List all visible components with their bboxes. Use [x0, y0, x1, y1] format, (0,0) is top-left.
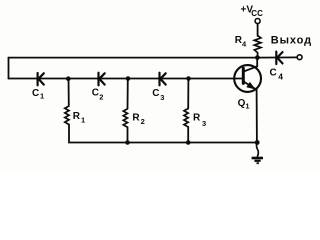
resistor R2: [123, 109, 127, 127]
terminal +Vcc: [255, 19, 260, 24]
capacitor C4: [276, 52, 282, 64]
wire bottom ground rail: [69, 125, 258, 143]
svg-text:CC: CC: [251, 9, 263, 18]
capacitor C2: [99, 73, 105, 86]
node C (C3-R3 junction): [186, 76, 191, 81]
label C4: [270, 68, 284, 82]
svg-text:2: 2: [99, 93, 103, 102]
resistor R4: [254, 36, 261, 55]
svg-text:1: 1: [40, 92, 44, 101]
wire R3 branch lower: [187, 127, 189, 143]
wire R3 branch upper: [187, 79, 189, 109]
svg-text:1: 1: [245, 102, 249, 111]
resistor R3: [184, 109, 188, 127]
label R3: [193, 113, 206, 129]
wire R4 to collector node: [257, 54, 259, 58]
node A (C1-R1 junction): [66, 76, 71, 81]
wire Vcc to R4: [257, 24, 259, 36]
label +Vcc: [241, 4, 264, 17]
svg-text:C: C: [32, 88, 39, 99]
resistor R1: [65, 106, 69, 125]
node B (C2-R2 junction): [126, 76, 131, 81]
svg-text:2: 2: [141, 117, 145, 126]
ground: [252, 143, 263, 164]
label R1: [73, 111, 85, 125]
node R2 bottom junction: [125, 140, 130, 145]
capacitor C3: [160, 73, 166, 86]
svg-text:3: 3: [202, 119, 206, 128]
terminal output: [297, 55, 302, 60]
node emitter ground junction: [255, 140, 260, 145]
label Q1: [238, 98, 250, 111]
svg-text:4: 4: [278, 72, 283, 82]
label R4: [235, 35, 247, 49]
svg-text:R: R: [193, 113, 201, 124]
wire collector: [244, 58, 258, 72]
svg-text:3: 3: [160, 93, 164, 102]
transistor Q1: [234, 65, 261, 92]
wire left vertical: [8, 58, 10, 79]
label C2: [92, 88, 104, 102]
wire RC ladder rail: [9, 78, 244, 80]
svg-text:C: C: [92, 88, 99, 99]
wire R1 branch upper: [68, 79, 70, 107]
svg-text:R: R: [73, 111, 81, 122]
label C1: [32, 88, 44, 101]
svg-text:Выход: Выход: [271, 35, 312, 47]
wire output: [258, 56, 298, 58]
label C3: [152, 88, 164, 102]
svg-text:1: 1: [81, 116, 85, 125]
wire emitter: [244, 82, 257, 143]
svg-text:Q: Q: [238, 98, 246, 109]
label R2: [132, 113, 144, 127]
wire top feedback rail: [9, 57, 258, 59]
svg-text:C: C: [270, 68, 277, 79]
svg-text:R: R: [132, 113, 140, 124]
node collector junction: [255, 55, 260, 60]
capacitor C1: [38, 73, 44, 85]
wire R2 branch lower: [127, 127, 129, 142]
svg-text:C: C: [152, 88, 159, 99]
wire R2 branch upper: [127, 79, 129, 109]
node R3 bottom junction: [186, 140, 191, 145]
